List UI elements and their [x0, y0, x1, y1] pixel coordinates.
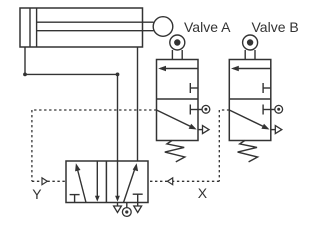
junction dot 2 — [116, 73, 120, 77]
main valve right-box vertical flow arrow — [115, 161, 120, 202]
valve A pressure source circle — [202, 105, 210, 113]
main valve left-box vertical flow arrow — [95, 161, 100, 202]
main valve exhaust triangle right — [134, 203, 142, 213]
valve A exhaust port triangle — [198, 126, 209, 134]
valve A bottom-box blocked supply port — [190, 105, 202, 115]
valve B body (3/2 valve) — [229, 60, 270, 141]
valve A top-box blocked port — [190, 83, 198, 93]
valve B pressure source circle — [275, 105, 283, 113]
valve A body (3/2 valve) — [157, 60, 199, 141]
valve A roller actuator — [170, 35, 185, 60]
wire from cylinder right port to main valve — [137, 47, 139, 161]
pilot Y arrowhead — [42, 178, 47, 185]
valve B bottom-box diagonal flow arrow — [229, 110, 269, 130]
main valve exhaust triangle left — [114, 203, 122, 213]
valve A position divider — [157, 98, 199, 100]
main valve left-box blocked port — [70, 195, 80, 203]
main valve position divider — [105, 161, 107, 203]
svg-text:Valve B: Valve B — [252, 19, 299, 35]
main valve right-box diagonal flow arrow — [124, 163, 139, 202]
pilot X arrowhead — [167, 178, 172, 185]
cylinder piston lines — [29, 8, 31, 47]
valve B roller actuator — [243, 35, 258, 60]
wire from cylinder left port to main valve (with elbow dots) — [25, 47, 118, 161]
main valve left-box diagonal flow arrow — [75, 163, 86, 202]
valve B return spring — [238, 141, 258, 162]
main valve pressure source — [122, 203, 131, 217]
pilot line X (dashed, from valve B to main valve right pilot) — [148, 110, 229, 181]
svg-text:X: X — [198, 185, 208, 201]
valve B top-box flow arrow — [231, 66, 271, 72]
cylinder (double-acting) body — [20, 8, 143, 47]
main valve right-box blocked port — [133, 194, 143, 202]
junction dot 1 — [23, 73, 27, 77]
cylinder rod-end roller circle — [153, 17, 173, 37]
valve B top-box blocked port — [263, 83, 271, 93]
valve B position divider — [229, 98, 270, 100]
main impulse valve body (4/2) — [66, 161, 148, 203]
valve A top-box flow arrow — [158, 66, 198, 72]
svg-text:Y: Y — [32, 186, 42, 202]
valve B bottom-box blocked supply port — [263, 105, 275, 115]
cylinder piston rod — [37, 21, 154, 23]
pilot line Y (dashed, from valve A to main valve left pilot) — [32, 110, 157, 181]
valve A return spring — [165, 141, 185, 162]
valve B exhaust port triangle — [271, 126, 282, 134]
valve A bottom-box diagonal flow arrow — [157, 110, 197, 130]
svg-text:Valve A: Valve A — [184, 19, 231, 35]
